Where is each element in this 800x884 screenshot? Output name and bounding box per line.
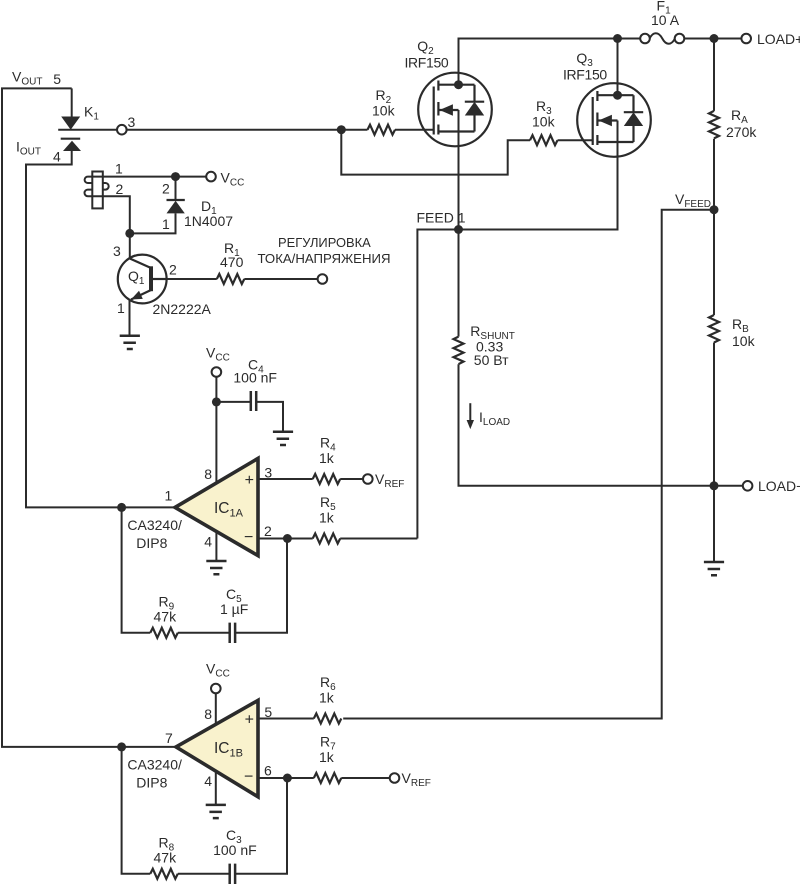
junction top rail / Q3 [613, 34, 622, 43]
svg-text:1: 1 [165, 488, 173, 504]
Q1 pin 3 label [113, 243, 121, 259]
wire VFEED to RB [713, 210, 715, 315]
resistor R4 [313, 474, 341, 484]
wire C4 to ground [256, 402, 283, 432]
diode D1 name label [184, 198, 233, 229]
fuse F1 [640, 33, 684, 44]
wire Q3 source to FEED 1 [459, 121, 618, 230]
terminal VCC (IC1A) [206, 345, 230, 377]
resistor R9 [150, 628, 178, 638]
svg-text:1k: 1k [319, 690, 335, 706]
transistor Q1 name label [128, 268, 212, 317]
wire R7 to VREF [341, 777, 390, 779]
Q1 pin 1 label [117, 300, 125, 316]
wire Q2 drain to top rail [459, 39, 641, 85]
wire relay pin 4 to IOUT rail [26, 151, 175, 507]
capacitor C3 value label [213, 827, 257, 858]
svg-text:470: 470 [220, 254, 244, 270]
ground (IC1A pin 4) [206, 561, 226, 574]
junction top rail / RA [710, 34, 719, 43]
control input label [257, 235, 390, 266]
wire VCC to C4 [216, 401, 250, 403]
svg-text:2: 2 [169, 262, 177, 278]
transistor Q3 name label [563, 50, 607, 83]
relay coil pin 2 label [116, 181, 124, 197]
IC1A pin 8 label [204, 466, 212, 482]
wire relay common contact line [58, 129, 116, 131]
wire R8 to C3 [178, 873, 230, 875]
wire C3 up to pin 6 [235, 778, 287, 874]
terminal LOAD+ [741, 31, 800, 47]
wire feedback loop down to R8 [122, 747, 151, 874]
resistor R9 value label [154, 594, 178, 625]
svg-text:ТОКА/НАПРЯЖЕНИЯ: ТОКА/НАПРЯЖЕНИЯ [257, 251, 390, 266]
resistor RA value label [726, 107, 757, 140]
wire RSHUNT to LOAD- line [459, 364, 744, 486]
wire Q2 source lead [458, 110, 460, 230]
diode D1 pin 1 label [162, 216, 170, 232]
terminal control input [318, 274, 328, 284]
svg-text:1k: 1k [319, 749, 335, 765]
resistor R5 value label [319, 494, 336, 526]
wire R2 to Q2 gate [395, 129, 434, 131]
wire VCC to IC1B pin 8 [215, 693, 217, 724]
wire IC1A pin 4 to ground [215, 532, 217, 561]
diode D1 pin 2 label [162, 181, 170, 197]
svg-text:3: 3 [128, 114, 136, 130]
svg-text:2: 2 [162, 181, 170, 197]
svg-text:CA3240/: CA3240/ [127, 517, 182, 533]
fuse F1 value label [651, 0, 680, 28]
wire RA to VFEED [713, 139, 715, 210]
wire R9 to C5 [178, 632, 230, 634]
node IOUT label [16, 139, 61, 165]
terminal VCC (IC1B) [206, 661, 230, 694]
svg-text:FEED 1: FEED 1 [417, 210, 466, 226]
op-amp IC1B [176, 700, 258, 796]
wire R3 to Q3 gate [558, 139, 594, 141]
wire VOUT rail to IC1B pin 7 [2, 88, 176, 747]
IC1A pin 3 label [264, 465, 272, 481]
svg-text:CA3240/: CA3240/ [127, 757, 182, 773]
wire relay pin 5 lead [71, 88, 73, 117]
resistor R8 [150, 869, 178, 879]
node VFEED [675, 191, 719, 214]
resistor R3 value label [532, 98, 556, 130]
terminal VCC (relay) [206, 169, 244, 188]
wire IC1B pin 4 to ground [215, 771, 217, 805]
resistor RB [709, 315, 719, 343]
capacitor C4 [251, 391, 256, 411]
svg-text:6: 6 [264, 763, 272, 779]
svg-text:47k: 47k [154, 609, 178, 625]
resistor R7 value label [319, 734, 336, 766]
wire R5 to FEED1 branch [340, 538, 417, 540]
svg-text:LOAD−: LOAD− [758, 478, 800, 494]
wire Q3 drain to top rail [617, 39, 619, 96]
svg-text:IRF150: IRF150 [563, 66, 607, 82]
wire pin 3 to node R2/R3 [126, 129, 368, 131]
wire feedback loop down to R9 [122, 507, 151, 632]
ground (IC1B pin 4) [206, 805, 226, 818]
junction LOAD- / RB / ground [710, 481, 719, 490]
svg-text:−: − [244, 769, 253, 786]
svg-text:2: 2 [264, 523, 272, 539]
resistor R1 [217, 274, 245, 284]
resistor R6 [314, 714, 342, 724]
IC1A pin 2 label [264, 523, 272, 539]
svg-text:1: 1 [162, 216, 170, 232]
ground (LOAD-) [704, 562, 724, 575]
svg-text:1N4007: 1N4007 [184, 213, 233, 229]
ground (Q1 emitter) [120, 336, 140, 349]
svg-text:4: 4 [204, 534, 212, 550]
junction coil pin1 / D1 cathode [171, 172, 180, 181]
svg-text:10k: 10k [732, 333, 756, 349]
svg-text:100 nF: 100 nF [233, 369, 277, 385]
wire fuse to LOAD+ [684, 38, 742, 40]
transistor Q2 (MOSFET) [418, 73, 492, 147]
svg-text:IRF150: IRF150 [405, 55, 449, 71]
svg-text:8: 8 [204, 706, 212, 722]
svg-text:+: + [245, 472, 254, 489]
svg-text:1k: 1k [319, 510, 335, 526]
wire RB to LOAD- [713, 343, 715, 486]
svg-text:1: 1 [115, 161, 123, 177]
IC1B pin 4 label [204, 773, 212, 789]
junction pin 6 / C3 [283, 774, 292, 783]
IC1A name label [127, 517, 182, 551]
wire rail to RA [713, 39, 715, 111]
IC1A pin 1 label [165, 488, 173, 504]
wire R1 to control terminal [244, 278, 317, 280]
Q1 pin 2 label [169, 262, 177, 278]
wire IC1A pin 3 to R4 [258, 478, 313, 480]
svg-text:100 nF: 100 nF [213, 842, 257, 858]
current arrow ILOAD [467, 403, 511, 429]
IC1B pin 7 label [165, 730, 173, 746]
wire FEED 1 to RSHUNT [458, 230, 460, 337]
IC1B pin 5 label [264, 704, 272, 720]
wire VCC to IC1A pin 8 [215, 377, 217, 483]
resistor RSHUNT value label [470, 323, 515, 368]
svg-text:10k: 10k [372, 102, 396, 118]
svg-text:3: 3 [113, 243, 121, 259]
junction VCC / C4 [212, 397, 221, 406]
svg-text:2N2222A: 2N2222A [153, 301, 212, 317]
transistor Q2 name label [405, 38, 449, 71]
relay K1 pin 3 terminal [117, 114, 136, 135]
terminal LOAD- [743, 478, 800, 494]
IC1B name label [127, 757, 182, 791]
svg-text:2: 2 [116, 181, 124, 197]
wire coil pin 1 to VCC [103, 176, 207, 178]
junction coil pin2 / D1 anode / Q1 collector [125, 229, 134, 238]
relay K1 label [84, 104, 99, 123]
capacitor C4 value label [233, 357, 277, 386]
node VOUT label [12, 69, 61, 88]
svg-text:7: 7 [165, 730, 173, 746]
resistor R2 value label [372, 87, 396, 118]
resistor R7 [314, 773, 342, 783]
diode D1 [130, 177, 185, 234]
svg-text:DIP8: DIP8 [136, 535, 167, 551]
terminal VREF (IC1A) [363, 471, 404, 490]
resistor R1 value label [220, 240, 244, 270]
svg-text:8: 8 [204, 466, 212, 482]
transistor Q1 [118, 255, 167, 336]
svg-text:10k: 10k [532, 114, 556, 130]
capacitor C3 [230, 864, 235, 884]
junction Q3 drain [613, 91, 622, 100]
svg-text:50 Вт: 50 Вт [474, 352, 509, 368]
wire junction to Q1 collector [129, 233, 131, 259]
svg-text:270k: 270k [726, 124, 757, 140]
op-amp IC1A [175, 458, 258, 555]
wire IC1B pin 5 to R6 [258, 718, 314, 720]
svg-text:4: 4 [204, 773, 212, 789]
svg-text:4: 4 [53, 149, 61, 165]
relay K1 lower contact (pin 4) [61, 139, 81, 151]
wire Q1 base to R1 [167, 278, 217, 280]
capacitor C5 [230, 623, 235, 643]
junction pin 2 / C5 [283, 534, 292, 543]
wire VFEED to R6 [343, 210, 714, 719]
svg-text:47k: 47k [154, 850, 178, 866]
terminal VREF (IC1B) [390, 770, 431, 789]
resistor R5 [313, 534, 341, 544]
resistor RSHUNT [454, 337, 464, 365]
svg-text:+: + [245, 712, 254, 729]
resistor R4 value label [319, 435, 336, 467]
IC1A pin 4 label [204, 534, 212, 550]
wire LOAD- to ground [713, 486, 715, 562]
junction IC1B pin 7 / R8 [117, 742, 126, 751]
svg-text:1k: 1k [319, 450, 335, 466]
svg-text:РЕГУЛИРОВКА: РЕГУЛИРОВКА [278, 235, 371, 250]
relay K1 coil [85, 172, 109, 209]
IC1B pin 8 label [204, 706, 212, 722]
junction Q2 drain [454, 80, 463, 89]
junction IC1A pin 1 / R9 [117, 503, 126, 512]
svg-text:LOAD+: LOAD+ [757, 31, 800, 47]
svg-text:5: 5 [53, 71, 61, 87]
wire node to R3 [341, 130, 530, 175]
resistor R6 value label [319, 674, 336, 706]
wire C5 up to pin 2 [235, 539, 287, 633]
wire FEED 1 to R5 [417, 230, 458, 539]
svg-text:−: − [244, 529, 253, 546]
resistor R8 value label [154, 835, 178, 866]
wire R4 to VREF [340, 478, 363, 480]
ground (C4) [273, 432, 293, 445]
wire IC1B pin 6 to R7 [258, 777, 314, 779]
resistor R3 [530, 135, 558, 145]
junction relay line / R2 / R3 [337, 125, 346, 134]
relay K1 contact arm (pin 5) [61, 117, 80, 130]
svg-text:DIP8: DIP8 [136, 775, 167, 791]
resistor RA [709, 111, 719, 138]
wire IC1A pin 2 to R5 [258, 538, 313, 540]
wire coil pin 2 down [103, 196, 130, 233]
resistor RB value label [732, 316, 756, 349]
relay coil pin 1 label [115, 161, 123, 177]
capacitor C5 value label [220, 586, 248, 617]
svg-text:10 A: 10 A [651, 12, 680, 28]
transistor Q3 (MOSFET) [577, 83, 651, 157]
svg-text:1: 1 [117, 300, 125, 316]
resistor R2 [368, 125, 396, 135]
svg-text:1 µF: 1 µF [220, 601, 248, 617]
IC1B pin 6 label [264, 763, 272, 779]
node FEED 1 [417, 210, 466, 234]
